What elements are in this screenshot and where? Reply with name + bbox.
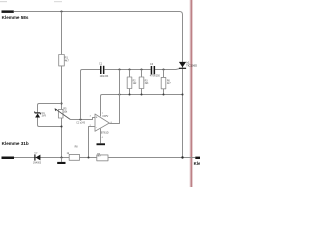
svg-text:R6: R6 xyxy=(167,80,171,82)
node minus input junction xyxy=(88,157,90,159)
svg-text:1k2: 1k2 xyxy=(133,83,137,85)
resistor R3 xyxy=(141,70,143,95)
node bottom left rail junction xyxy=(60,156,62,158)
svg-text:3: 3 xyxy=(90,116,92,118)
terminal bar right Klemme xyxy=(195,157,200,159)
terminal bar Klemme 58s xyxy=(2,10,14,13)
svg-text:3k3: 3k3 xyxy=(145,83,149,85)
svg-text:C1: C1 xyxy=(99,63,103,66)
svg-text:D2: D2 xyxy=(35,153,39,155)
node mid band junctions xyxy=(119,94,121,96)
svg-text:R8: R8 xyxy=(75,147,79,149)
red sheet border line xyxy=(190,0,193,187)
resistor R1 (top of left rail) xyxy=(59,55,65,66)
wire wiper to op-amp +in xyxy=(70,118,95,120)
svg-text:+: + xyxy=(96,116,98,120)
svg-text:C3: C3 xyxy=(150,63,154,66)
svg-text:4k7: 4k7 xyxy=(65,58,70,62)
resistor R8 xyxy=(69,154,79,160)
svg-text:Kle: Kle xyxy=(194,161,200,166)
thyristor Q1 TIC106D xyxy=(179,62,186,67)
wire bottom band xyxy=(14,157,195,159)
terminal bar Klemme 31b xyxy=(2,157,15,160)
wire op-amp minus input drop xyxy=(89,127,96,158)
op-amp U1 xyxy=(95,114,109,131)
capacitor C1 xyxy=(100,66,102,74)
ground bottom xyxy=(61,158,63,162)
wire zener branch xyxy=(38,104,62,127)
svg-text:-: - xyxy=(96,126,97,130)
wire riser x80 to cap C1 xyxy=(81,70,101,120)
svg-text:C2 u245: C2 u245 xyxy=(76,122,85,124)
svg-text:Klemme 58s: Klemme 58s xyxy=(2,15,29,20)
svg-text:Klemme 31b: Klemme 31b xyxy=(2,141,29,146)
svg-text:3V9: 3V9 xyxy=(42,115,47,118)
svg-text:4: 4 xyxy=(102,137,104,139)
capacitor C3 xyxy=(151,66,153,74)
diode D1 zener xyxy=(35,112,41,113)
ground op-amp xyxy=(100,129,102,144)
svg-text:TIC106D: TIC106D xyxy=(186,64,197,68)
svg-text:B761D: B761D xyxy=(101,132,109,135)
node top junction xyxy=(60,10,62,12)
wire top band xyxy=(104,68,179,71)
svg-text:100n/63: 100n/63 xyxy=(100,75,109,78)
node zener branch top xyxy=(60,102,62,104)
wire left rail xyxy=(61,12,63,158)
svg-text:10k: 10k xyxy=(63,110,68,113)
trimmer R5 xyxy=(58,109,63,118)
resistor R6 xyxy=(163,70,165,95)
wire top rail to right rail xyxy=(14,12,183,159)
diode D2 xyxy=(36,155,41,161)
node zener branch bottom xyxy=(60,125,62,127)
svg-text:R2: R2 xyxy=(133,80,137,82)
wire op-amp output riser xyxy=(109,70,119,124)
svg-text:R3: R3 xyxy=(145,80,149,82)
node bottom right rail junction xyxy=(181,156,183,158)
resistor R9 xyxy=(97,155,108,161)
svg-text:1N4003: 1N4003 xyxy=(33,162,42,164)
top edge remnants xyxy=(0,1,7,2)
svg-text:OPV: OPV xyxy=(102,114,108,118)
wire mid band xyxy=(101,95,183,117)
svg-text:470n/250: 470n/250 xyxy=(150,75,161,78)
resistor R2 xyxy=(129,70,131,95)
svg-text:4k7: 4k7 xyxy=(167,83,171,85)
node wiper junction xyxy=(79,118,81,120)
node top band junctions xyxy=(119,69,121,71)
